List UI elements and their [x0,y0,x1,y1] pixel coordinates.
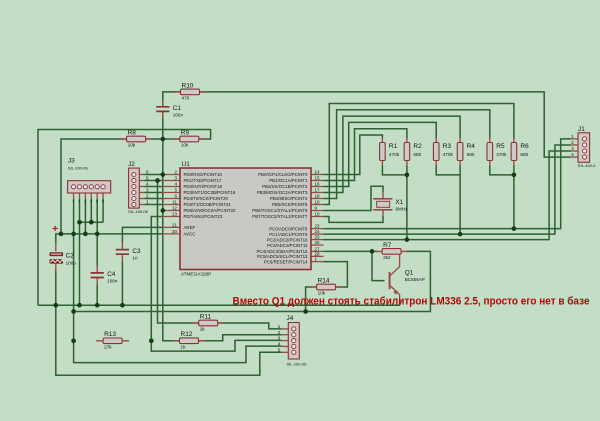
svg-text:15: 15 [315,176,321,181]
svg-text:1k: 1k [200,327,206,332]
wire J2 pin5 to U1 PD1 [144,180,162,182]
wire R8-C1-R9 junction row [145,138,181,140]
svg-text:PD5/T1/OC0B/PCINT21: PD5/T1/OC0B/PCINT21 [184,202,232,207]
node R1/R2 junction [405,173,410,178]
resistor R2 [404,138,422,166]
wire R14 right to U1 PC6/RESET pin1 [324,262,348,287]
node PD6 junction [160,208,165,213]
wire left rail from R9 right up-over-down to bottom line [38,130,211,306]
wire R3 bottom to R4 column [436,166,460,175]
svg-text:PD7/AIN1/PCINT23: PD7/AIN1/PCINT23 [184,214,223,219]
capacitor C3 [116,242,141,262]
svg-text:2k2: 2k2 [383,255,391,260]
node PC4/R7/Q1 junction [370,249,375,254]
svg-text:SIL-100-06: SIL-100-06 [68,165,89,170]
resistor R14 [310,277,343,295]
wire PD0 net down to R12 left [163,139,179,341]
wire J3 pin2 column down to bottom line [79,198,81,305]
svg-text:R3: R3 [443,143,452,150]
node PC1/R4 junction [458,232,463,237]
resistor R9 [173,129,206,147]
wire C1 bottom to junction [162,112,164,139]
wire PD6 nub [161,210,164,212]
svg-text:R8: R8 [128,129,137,136]
capacitor C4 [91,265,118,285]
svg-text:R4: R4 [467,143,476,150]
crystal X1 [373,193,408,216]
node AVCC rail junctions [59,232,64,237]
wire PC4 to R7 left / Q1 base junction [324,250,378,252]
svg-text:PB2/SS/OC1B/PCINT2: PB2/SS/OC1B/PCINT2 [262,184,308,189]
svg-text:25: 25 [315,235,321,240]
wire R8 left lead down to AVCC rail [61,139,127,234]
svg-text:27k: 27k [104,344,112,349]
wire J3 pin4 column to short bus [90,198,92,222]
svg-text:PC2/ADC2/PCINT10: PC2/ADC2/PCINT10 [267,237,308,242]
svg-text:R11: R11 [200,313,212,320]
svg-text:R10: R10 [182,82,194,89]
svg-text:R6: R6 [520,143,529,150]
svg-text:X1: X1 [395,199,403,206]
resistor R13 [96,331,129,349]
svg-text:PD3/INT1/OC2B/PCINT19: PD3/INT1/OC2B/PCINT19 [184,190,236,195]
wire PB6 loop to X1 top [324,186,384,210]
wire Q1 collector down to line 2 [399,299,401,305]
wire R4 column down to PC1 bus [459,166,461,235]
node line2 junctions [53,303,58,308]
svg-text:4: 4 [90,200,92,204]
wire PB5 to R6 top [324,104,514,205]
resistor R3 [433,138,453,166]
svg-text:AREF: AREF [184,225,196,230]
resistor R12 [173,331,206,349]
node R13 row junctions [71,338,76,343]
wire PC1 bus to J1 pin2 [324,145,571,234]
svg-text:PC3/ADC3/PCINT11: PC3/ADC3/PCINT11 [267,243,308,248]
svg-text:14: 14 [315,170,321,175]
wire J2 pin4 to U1 PD2 [144,186,162,188]
node J3 bus junctions [77,220,82,225]
svg-text:3: 3 [84,200,86,204]
svg-text:R7: R7 [383,242,392,249]
svg-text:PD1/TXD/PCINT17: PD1/TXD/PCINT17 [184,178,222,183]
svg-text:1: 1 [72,200,74,204]
svg-text:20: 20 [172,229,178,234]
node PD0 junction [160,172,165,177]
resistor R4 [457,138,475,166]
svg-text:R2: R2 [413,143,422,150]
wire R5 bottom to R6 column [490,166,514,175]
wire PD1 net down to R11 left [158,181,200,324]
svg-text:R12: R12 [181,331,193,338]
svg-text:AVCC: AVCC [184,232,196,237]
svg-text:Вместо Q1 должен стоять стабил: Вместо Q1 должен стоять стабилитрон LM33… [233,296,590,308]
wire R12 right to J4 pin2 [199,335,282,341]
svg-text:J1: J1 [578,126,585,133]
svg-text:C1: C1 [173,105,182,112]
svg-text:PD6/AIN0/OC0A/PCINT22: PD6/AIN0/OC0A/PCINT22 [184,208,237,213]
svg-text:19: 19 [315,200,321,205]
wire PC2 bus to J1 pin3 [324,151,571,240]
transistor Q1 BC556AP [389,254,425,300]
svg-text:C3: C3 [132,248,141,255]
svg-text:12: 12 [172,206,178,211]
svg-text:PB5/SCK/PCINT5: PB5/SCK/PCINT5 [272,202,308,207]
svg-text:R14: R14 [318,277,330,284]
node R5/R6 junction [512,173,517,178]
svg-text:ATMEGA328P: ATMEGA328P [181,271,211,276]
wire R10/C1 top net to J1 pin4 [163,92,571,157]
svg-text:470: 470 [182,95,190,100]
svg-text:100u: 100u [66,261,77,266]
op-amp U1 ATMEGA328P [162,161,324,276]
resistor R8 [120,129,153,147]
svg-text:470k: 470k [443,152,454,157]
svg-text:PC6/RESET/PCINT14: PC6/RESET/PCINT14 [264,259,308,264]
svg-text:R13: R13 [104,331,116,338]
wire J2 pin2 to U1 PD4 [144,198,162,200]
wire J2 pin1 to U1 PD5 [144,204,162,206]
connector J4 [278,315,307,366]
svg-text:J3: J3 [68,158,75,165]
wire PB7 jog to X1 bottom [324,216,384,222]
svg-text:24: 24 [315,229,321,234]
svg-text:26: 26 [315,240,321,245]
svg-text:SIL-100-05: SIL-100-05 [287,362,308,367]
svg-text:Q1: Q1 [405,269,414,276]
wire PB4 to R5 top [324,110,490,199]
svg-text:C4: C4 [107,271,116,278]
wire C2 bottom down and across to J4 pin5 [56,271,282,376]
wire J2 pin3 to U1 PD3 [144,192,162,194]
svg-text:SIL-100-06: SIL-100-06 [128,209,149,214]
svg-text:680: 680 [413,152,421,157]
svg-text:470k: 470k [389,152,400,157]
resistor R7 [375,242,408,260]
wire J3 pin6 column [102,198,104,222]
wire PB2 to R3 top [324,122,437,186]
svg-text:13: 13 [172,212,178,217]
svg-text:BC556AP: BC556AP [405,277,425,282]
svg-text:2: 2 [78,200,80,204]
wire AVCC rail to C2 [56,234,162,243]
svg-text:680: 680 [467,152,475,157]
capacitor C1 [156,99,183,119]
wire C1 top [162,96,164,107]
wire J3 pin5 column down through C4 to bottom line [96,198,98,265]
wire R11 right to J4 pin1 [218,323,282,329]
connector J2 [128,161,149,214]
wire J3 pin1 column down across to J4 pin4 [74,198,282,362]
svg-text:10k: 10k [181,143,189,148]
wire PD7 down to J4 pin3 via R13 row [151,217,281,352]
svg-text:6: 6 [102,200,104,204]
connector J1 [571,126,596,168]
svg-text:17: 17 [315,188,321,193]
svg-text:PB3/MOSI/OC2A/PCINT3: PB3/MOSI/OC2A/PCINT3 [257,190,308,195]
svg-text:R1: R1 [389,143,398,150]
svg-text:PD4/T0/XCK/PCINT20: PD4/T0/XCK/PCINT20 [184,196,229,201]
svg-text:+: + [52,224,58,235]
node C1/R8/R9 junction [160,137,165,142]
connector J3 [68,158,111,204]
svg-text:J4: J4 [287,315,294,322]
wire PB1 to R2 top [324,129,407,181]
svg-text:16: 16 [315,182,321,187]
node PC2/R2 junction [405,237,410,242]
svg-text:PC1/ADC1/PCINT9: PC1/ADC1/PCINT9 [269,232,308,237]
resistor R6 [511,138,529,166]
svg-text:1k: 1k [181,344,187,349]
svg-text:10k: 10k [128,143,136,148]
svg-text:PD2/INT0/PCINT18: PD2/INT0/PCINT18 [184,184,223,189]
svg-text:11: 11 [172,200,177,205]
wire AREF to C3 column down to bottom line [122,227,162,242]
svg-text:PB1/OC1A/PCINT1: PB1/OC1A/PCINT1 [269,178,308,183]
wire PB3 to R4 top [324,116,461,192]
svg-text:5: 5 [96,200,98,204]
wire line 3 from J3 pin1 column to R7 right [74,251,431,311]
wire J3 short bus pin2-pin6 [80,221,104,223]
resistor R1 [380,138,400,166]
svg-text:100n: 100n [173,113,184,118]
svg-text:J2: J2 [128,161,135,168]
svg-text:1n: 1n [132,255,138,260]
svg-text:PC0/ADC0/PCINT8: PC0/ADC0/PCINT8 [269,226,308,231]
wire Q1 base [372,251,385,280]
wire ground line 2 [38,304,400,306]
node line3 junctions [71,309,76,314]
wire R2 column down to PC2 bus [406,166,408,240]
svg-text:18: 18 [315,194,321,199]
svg-text:U1: U1 [182,161,191,168]
svg-text:PB6/TOSC1/XTAL1/PCINT6: PB6/TOSC1/XTAL1/PCINT6 [252,208,308,213]
svg-text:10: 10 [315,212,321,217]
wire PC0 bus to J1 pin1 [324,139,571,229]
svg-text:21: 21 [172,223,178,228]
svg-text:R5: R5 [496,143,505,150]
svg-text:PB4/MISO/PCINT4: PB4/MISO/PCINT4 [270,196,308,201]
resistor R11 [192,313,225,331]
svg-text:23: 23 [315,224,321,229]
wire PB0 to R1 top [324,135,383,175]
capacitor C2 (electrolytic) [50,242,77,271]
node PC0/R6 junction [512,226,517,231]
svg-text:PD0/RXD/PCINT16: PD0/RXD/PCINT16 [184,172,223,177]
svg-text:R9: R9 [181,129,190,136]
wire J3 pin3 column to AVCC rail [84,198,86,234]
resistor R5 [487,138,507,166]
wire R6 column down to PC0 bus [513,166,515,229]
node PD1 junction [155,178,160,183]
svg-text:PB0/ICP1/CLKO/PCINT0: PB0/ICP1/CLKO/PCINT0 [258,172,308,177]
svg-text:680: 680 [520,152,528,157]
wire J2 pin6 to U1 PD0 [144,174,162,176]
svg-text:C2: C2 [66,253,75,260]
svg-text:100n: 100n [107,279,118,284]
svg-text:PB7/TOSC2/XTAL2/PCINT7: PB7/TOSC2/XTAL2/PCINT7 [252,214,308,219]
wire R1 bottom to R2 column [382,166,407,175]
svg-text:SIL-100-0: SIL-100-0 [578,163,596,168]
resistor R10 [174,82,207,100]
svg-text:8MHz: 8MHz [395,207,408,212]
wire R14 left to line 3 [306,287,316,312]
svg-text:470k: 470k [496,152,507,157]
